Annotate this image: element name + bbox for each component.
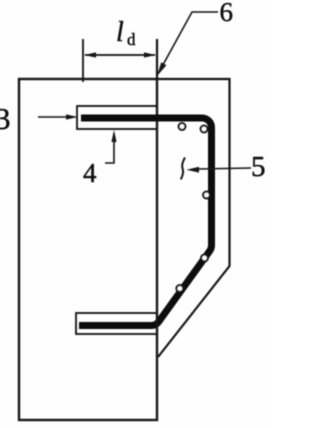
arrowhead 5 <box>187 167 200 173</box>
leader line 5 <box>198 168 251 169</box>
svg-text:6: 6 <box>220 0 234 27</box>
svg-text:l: l <box>116 17 124 48</box>
wall outline (left rectangle) <box>19 79 157 420</box>
bracket outline (right shape: top edge, right edge, diagonal cut) <box>157 79 230 357</box>
leader arrow 3 <box>38 116 68 118</box>
label l_d text <box>116 17 136 49</box>
top anchorage outline box <box>77 106 157 129</box>
dimension line l_d with arrowheads <box>85 54 155 56</box>
svg-text:d: d <box>127 30 136 49</box>
dimension extension line right (wall edge extended up) <box>156 39 158 79</box>
tie circle 5 (on diagonal) <box>176 285 183 292</box>
svg-text:3: 3 <box>0 101 11 136</box>
svg-text:4: 4 <box>83 158 97 188</box>
arrowhead 6 <box>157 62 166 76</box>
svg-text:5: 5 <box>251 151 266 183</box>
tie circle 4 (at lower bend) <box>201 255 208 262</box>
leader line 6 <box>159 12 219 73</box>
leader line 4 <box>105 140 114 163</box>
tie tick mark near 5 <box>181 158 185 180</box>
dimension extension line left <box>82 39 84 82</box>
tie circle 2 (at top bend) <box>201 126 208 133</box>
rebar (continuous thick bar: top horizontal, bend, vertical, diagonal, lower horizontal) <box>79 118 212 326</box>
tie circle 1 (below top bar) <box>179 123 186 130</box>
tie circle 3 (left of vertical bar) <box>203 192 210 199</box>
arrowhead 4 <box>111 130 116 142</box>
lower anchorage outline box <box>76 313 157 334</box>
